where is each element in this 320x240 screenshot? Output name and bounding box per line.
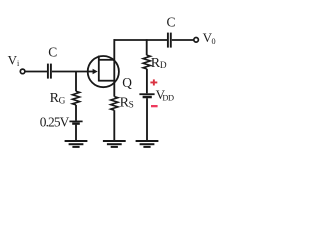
- wire: capacitor C1 to gate (enters transistor circle): [52, 71, 94, 73]
- svg-text:V0: V0: [203, 30, 216, 46]
- battery VDD (short plate): [143, 96, 152, 99]
- wire: RS to ground: [113, 110, 115, 140]
- battery 0.25V (short plate): [72, 122, 80, 124]
- capacitor C1 (input coupling): [48, 64, 51, 79]
- svg-text:RS: RS: [120, 95, 134, 110]
- source bar: [99, 80, 115, 82]
- wire: RG to battery 0.25V: [75, 105, 77, 121]
- battery 0.25V (long plate): [69, 120, 82, 122]
- wire: battery to ground: [75, 125, 77, 141]
- transistor Q (JFET in circle): [88, 56, 119, 88]
- node: gate junction, wire down to RG: [75, 72, 77, 92]
- terminal Vi: [20, 69, 25, 74]
- channel bar: [98, 56, 100, 82]
- gate arrowhead: [93, 69, 98, 74]
- terminal V0: [194, 38, 199, 43]
- polarity + (VDD positive): [150, 79, 157, 85]
- capacitor C2 (output coupling): [168, 33, 171, 48]
- polarity - (VDD negative): [151, 105, 158, 107]
- wire: RD to battery VDD: [146, 69, 148, 94]
- node: RD junction, wire down to RD: [146, 39, 148, 55]
- resistor RD: [143, 55, 150, 69]
- ground (under 0.25V battery): [65, 141, 88, 147]
- svg-text:RG: RG: [50, 91, 66, 106]
- resistor RS: [111, 97, 118, 111]
- svg-text:0.25V: 0.25V: [40, 115, 70, 130]
- battery VDD (long plate): [139, 93, 154, 95]
- wire: battery VDD to ground: [146, 98, 148, 140]
- svg-text:C: C: [48, 45, 57, 60]
- drain bar: [99, 59, 115, 61]
- wire: drain/source vertical through transistor: [113, 39, 115, 96]
- svg-text:RD: RD: [151, 56, 167, 71]
- wire: Vi terminal to input capacitor: [25, 71, 47, 73]
- svg-text:Q: Q: [122, 75, 132, 90]
- svg-text:Vi: Vi: [8, 53, 20, 69]
- svg-text:VDD: VDD: [156, 87, 174, 102]
- wire: top rail from drain to output capacitor: [114, 39, 168, 41]
- svg-text:C: C: [167, 14, 176, 29]
- ground (under VDD): [136, 141, 159, 147]
- ground (under RS): [103, 141, 126, 147]
- resistor RG: [72, 91, 79, 105]
- wire: capacitor C2 to output terminal: [172, 39, 194, 41]
